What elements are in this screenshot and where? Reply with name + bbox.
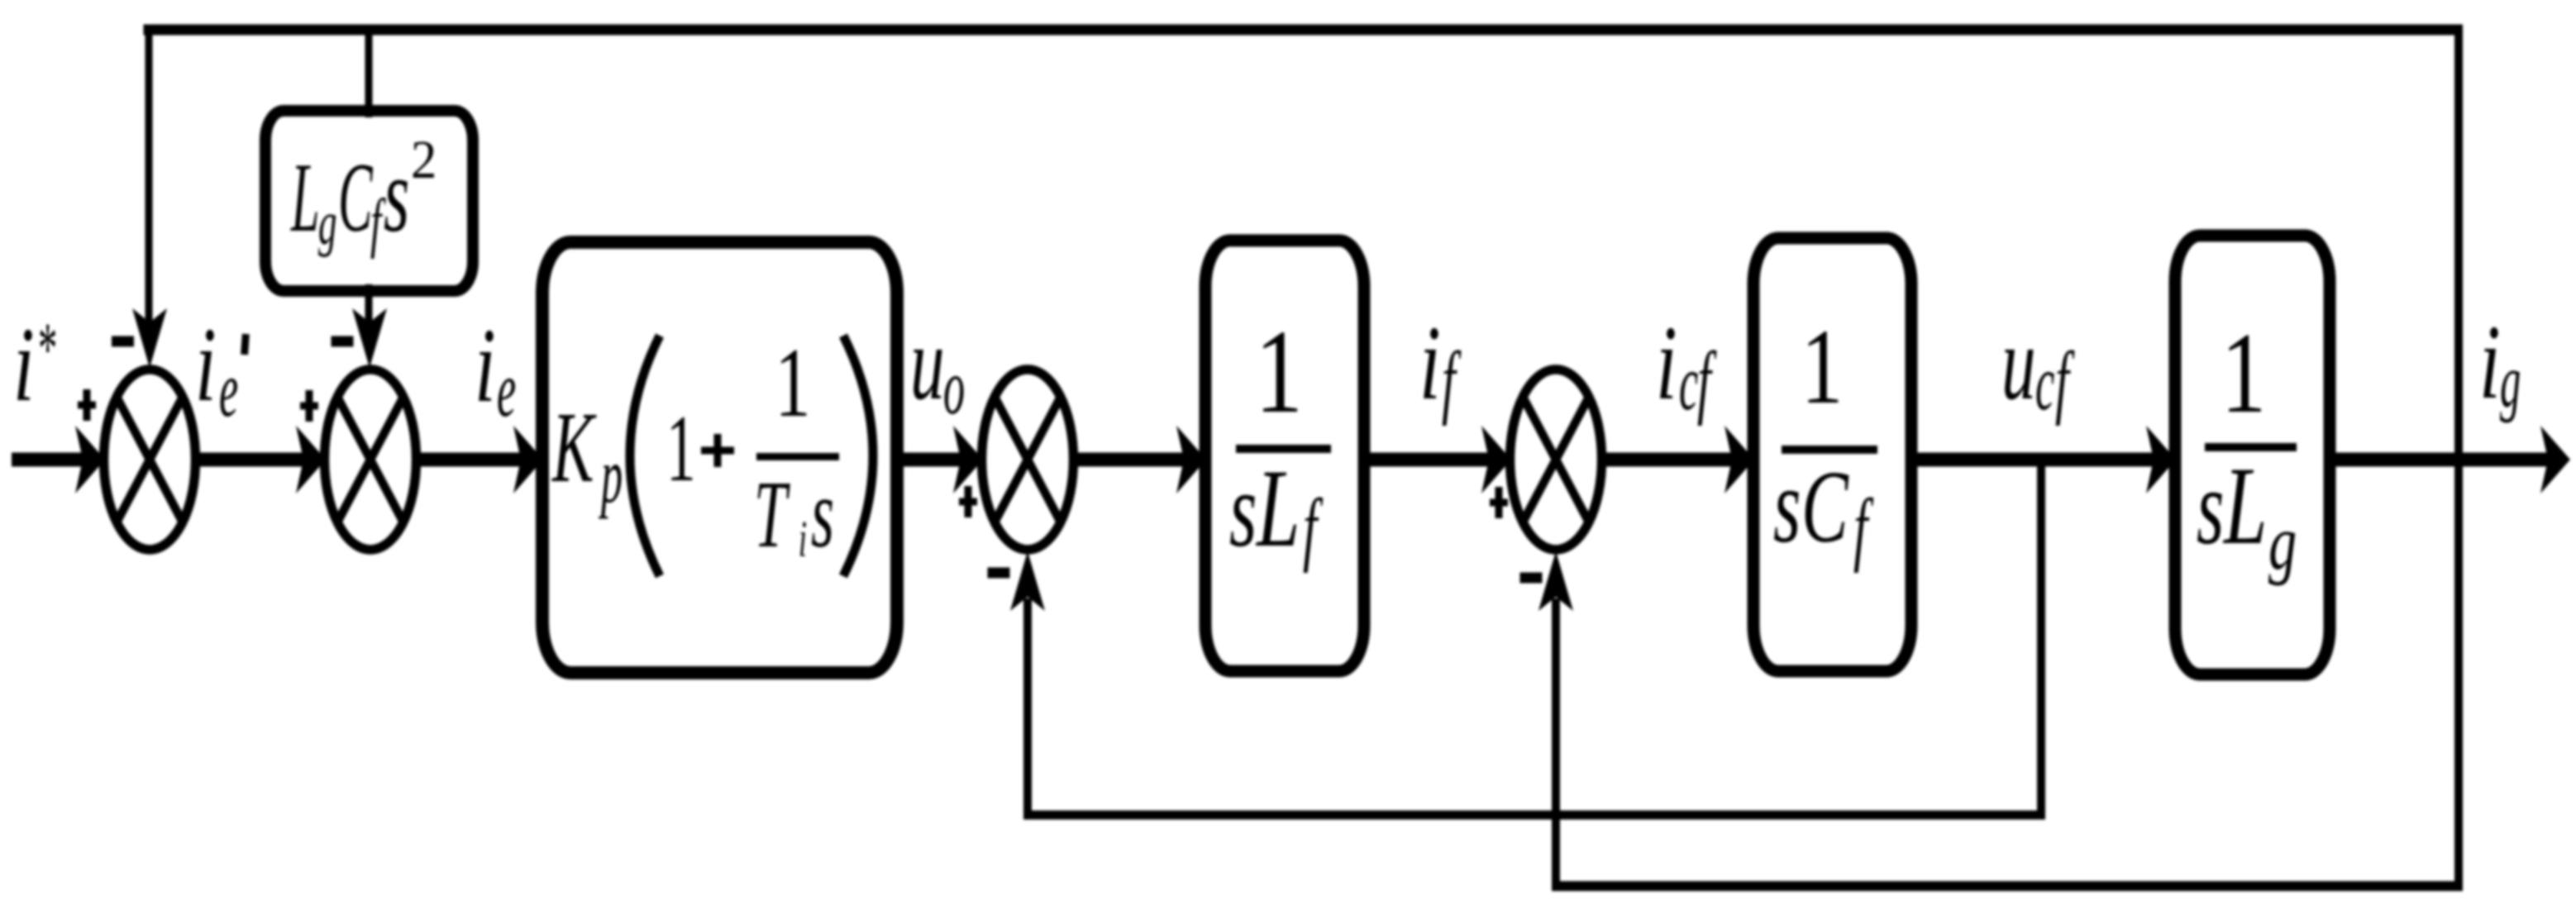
wire input i star (12, 453, 83, 467)
svg-text:s: s (811, 459, 834, 568)
svg-text:g: g (2268, 498, 2297, 586)
sign plus S4 (1490, 499, 1508, 507)
svg-text:c: c (2035, 340, 2054, 427)
svg-text:i: i (799, 511, 807, 568)
svg-text:K: K (551, 392, 598, 503)
sign minus S2 (332, 336, 354, 347)
paren left (630, 336, 660, 576)
paren right (843, 336, 873, 576)
svg-text:e: e (497, 346, 516, 433)
svg-text:i: i (13, 307, 35, 424)
svg-text:u: u (2001, 305, 2036, 422)
block LgCfs2 (265, 111, 473, 291)
wire top feedback from node ig (144, 25, 2464, 36)
wire bottom ig feedback horizontal (1552, 881, 2463, 891)
wire block LgCfs2 to summer S2 (365, 284, 373, 324)
svg-text:o: o (943, 344, 965, 431)
sign minus S4 (1520, 573, 1543, 584)
svg-text:i: i (1656, 306, 1677, 422)
svg-text:s: s (2197, 447, 2224, 566)
svg-text:c: c (1679, 340, 1698, 427)
block 1 over sCf (1753, 238, 1911, 671)
wire ucf feedback horizontal (1023, 811, 2045, 820)
block 1 over sLf (1205, 241, 1364, 671)
sign plus S3 (959, 498, 977, 506)
summing junction S3 (982, 369, 1074, 550)
svg-text:p: p (599, 432, 623, 519)
wire right vertical ig tap (2454, 25, 2463, 886)
svg-text:L: L (1255, 447, 1300, 570)
svg-text:1: 1 (1255, 306, 1303, 438)
svg-text:1: 1 (1801, 307, 1844, 427)
wire S3 to block 1/sLf (1073, 453, 1184, 467)
sign minus S3 (988, 568, 1010, 579)
svg-text:*: * (38, 307, 57, 390)
svg-text:g: g (2500, 340, 2521, 424)
svg-text:L: L (2222, 445, 2267, 568)
svg-text:s: s (1229, 450, 1257, 569)
svg-text:u: u (910, 305, 945, 422)
wire S4 to block 1/sCf (1601, 453, 1732, 467)
svg-text:1: 1 (666, 396, 696, 501)
wire block 1/sCf to block 1/sLg via node ucf (1911, 453, 2154, 467)
summing junction S2 (325, 369, 417, 550)
wire ig feedback rise into summer S4 (1552, 598, 1560, 891)
svg-text:1: 1 (775, 327, 810, 437)
wire ucf feedback rise into summer S3 (1023, 598, 1032, 819)
sign plus S2 (300, 403, 318, 410)
wire top line into block LgCfs2 (365, 25, 373, 117)
svg-text:C: C (1801, 450, 1849, 565)
block 1 over sLg (2175, 236, 2330, 674)
svg-text:g: g (318, 190, 336, 258)
wire S2 to block PI (416, 453, 521, 467)
wire ucf tap vertical (2037, 460, 2045, 819)
svg-text:i: i (1419, 306, 1441, 422)
svg-text:L: L (290, 142, 320, 252)
summing junction S4 (1510, 369, 1602, 550)
svg-text:2: 2 (411, 130, 436, 190)
svg-text:e: e (219, 346, 238, 433)
svg-text:s: s (1773, 446, 1801, 565)
wire output ig (2330, 453, 2548, 467)
wire block 1/sLf to S4 (1364, 453, 1489, 467)
wire S1 to S2 (195, 453, 303, 467)
svg-text:i: i (2479, 305, 2501, 422)
svg-text:1: 1 (2221, 309, 2267, 437)
summing junction S1 (104, 369, 196, 550)
svg-text:C: C (338, 142, 373, 252)
svg-text:i: i (195, 307, 217, 424)
svg-text:T: T (754, 462, 790, 567)
block PI controller (542, 242, 897, 673)
sign minus S1 (112, 336, 134, 347)
svg-text:s: s (384, 136, 409, 255)
sign plus S1 (78, 402, 96, 409)
wire drop into summer S1 (145, 25, 153, 324)
wire block PI to S3 (897, 453, 961, 467)
svg-text:i: i (475, 308, 496, 425)
